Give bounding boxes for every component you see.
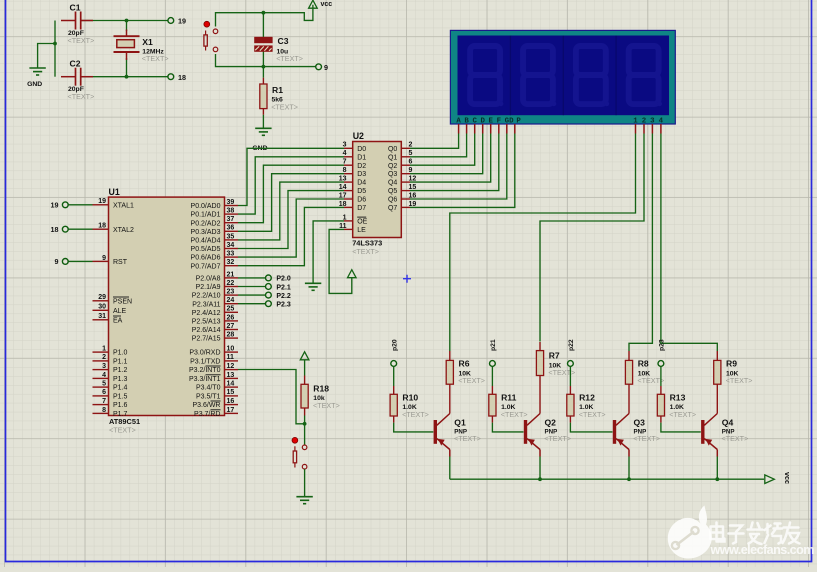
svg-text:P2.2: P2.2 [276, 293, 291, 300]
svg-text:Q2: Q2 [545, 418, 557, 428]
svg-text:<TEXT>: <TEXT> [313, 401, 340, 410]
wire P2.0 to terminal [238, 277, 266, 279]
power VCC for LE [348, 270, 357, 278]
svg-text:28: 28 [227, 332, 235, 339]
svg-text:36: 36 [227, 225, 235, 232]
power VCC right arrow [765, 472, 792, 484]
svg-text:4: 4 [102, 372, 106, 379]
latch U2 74LS373 [352, 131, 401, 256]
wire Q2 to segment C [410, 134, 475, 166]
svg-text:24: 24 [227, 297, 235, 304]
svg-text:21: 21 [227, 271, 235, 278]
svg-text:<TEXT>: <TEXT> [109, 426, 136, 435]
svg-text:D4: D4 [357, 180, 366, 187]
svg-text:<TEXT>: <TEXT> [637, 376, 664, 385]
svg-text:<TEXT>: <TEXT> [402, 410, 429, 419]
svg-text:<TEXT>: <TEXT> [722, 434, 749, 443]
wire R1 to ground [262, 115, 264, 129]
wire p21 to R11 [491, 366, 493, 386]
svg-text:P1.5: P1.5 [113, 394, 128, 401]
svg-text:<TEXT>: <TEXT> [142, 54, 169, 63]
svg-text:13: 13 [227, 372, 235, 379]
wire P2.3 to terminal [238, 303, 266, 305]
R8 body [625, 360, 632, 384]
wire Q3 to segment D [410, 134, 483, 174]
wire R11 to Q2 base [492, 423, 523, 432]
terminal p21 [490, 339, 498, 366]
svg-text:OE: OE [357, 219, 367, 226]
svg-text:p21: p21 [490, 339, 497, 351]
R10 body [390, 394, 397, 416]
svg-text:Q6: Q6 [388, 197, 397, 204]
mcu U1 AT89C51 [109, 187, 225, 435]
wire digit2 to R7 [540, 134, 644, 342]
svg-text:39: 39 [227, 199, 235, 206]
resistor R13 1.0K [657, 386, 696, 423]
R6 body [446, 360, 453, 384]
svg-text:R7: R7 [549, 351, 560, 361]
svg-text:14: 14 [227, 381, 235, 388]
wire digit1 to R6 [450, 134, 636, 352]
svg-text:15: 15 [227, 389, 235, 396]
svg-text:R1: R1 [272, 85, 283, 95]
svg-text:Q2: Q2 [388, 163, 397, 170]
svg-text:U2: U2 [353, 131, 364, 141]
svg-text:<TEXT>: <TEXT> [352, 247, 379, 256]
svg-text:p23: p23 [659, 339, 666, 351]
wire P0.1 to D1 [238, 157, 344, 214]
wire Q1 to segment B [410, 134, 467, 157]
wire Q4 emitter to rail [716, 457, 718, 480]
svg-text:<TEXT>: <TEXT> [271, 103, 298, 112]
terminal 19 (XTAL1) [168, 17, 186, 26]
ground under R1 [255, 127, 271, 129]
svg-text:33: 33 [227, 251, 235, 258]
svg-text:R18: R18 [313, 384, 329, 394]
capacitor C2 [61, 59, 94, 102]
wire p22 to R12 [569, 366, 571, 386]
U2 left pins D0-D7 OE LE [339, 142, 368, 234]
svg-text:P2.1/A9: P2.1/A9 [196, 284, 221, 291]
svg-text:C2: C2 [70, 59, 81, 69]
svg-text:6: 6 [102, 389, 106, 396]
svg-text:P3.7/RD: P3.7/RD [194, 411, 220, 418]
wire C3 top [262, 13, 264, 37]
svg-text:P3.5/T1: P3.5/T1 [196, 394, 221, 401]
wire digit4 to R9 [661, 134, 717, 352]
resistor R18 body [301, 384, 308, 408]
svg-text:Q5: Q5 [388, 188, 397, 195]
terminal P2.0 [266, 275, 291, 283]
svg-text:19: 19 [51, 200, 59, 209]
svg-text:Q1: Q1 [454, 418, 466, 428]
svg-text:P2.3: P2.3 [276, 302, 291, 309]
wire R18 bottom [304, 416, 306, 424]
resistor R10 1.0K [390, 386, 429, 423]
wire P0.6 to D6 [238, 199, 344, 257]
svg-text:P0.7/AD7: P0.7/AD7 [191, 263, 221, 270]
wire C3 bottom to R1 [262, 52, 264, 78]
terminal p20 [391, 339, 398, 366]
push button reset [204, 21, 218, 51]
svg-text:LE: LE [357, 227, 366, 234]
svg-text:P1.3: P1.3 [113, 376, 128, 383]
svg-text:R13: R13 [670, 392, 686, 402]
wire R13 to Q4 base [661, 423, 701, 432]
transistor Q1 PNP [434, 414, 481, 457]
push button INT0 [292, 437, 307, 469]
terminal 9 (reset) [316, 63, 328, 72]
R11 body [489, 394, 496, 416]
svg-text:P2.6/A14: P2.6/A14 [192, 327, 221, 334]
svg-text:Q4: Q4 [388, 180, 397, 187]
4-digit 7-segment display [450, 30, 675, 133]
svg-text:1: 1 [102, 346, 106, 353]
svg-text:R12: R12 [579, 392, 595, 402]
svg-text:P2.1: P2.1 [276, 284, 291, 291]
svg-text:27: 27 [227, 323, 235, 330]
svg-text:22: 22 [227, 280, 235, 287]
wire X1 top [126, 21, 128, 32]
svg-text:P2.7/A15: P2.7/A15 [192, 336, 221, 343]
svg-text:XTAL1: XTAL1 [113, 202, 134, 209]
watermark logo elecfans [668, 506, 712, 559]
svg-text:P2.0: P2.0 [276, 276, 291, 283]
svg-text:Q1: Q1 [388, 154, 397, 161]
wire Q1 emitter to rail [449, 457, 451, 480]
svg-text:P0.6/AD6: P0.6/AD6 [191, 255, 221, 262]
ground under button [296, 496, 312, 498]
svg-text:p20: p20 [391, 339, 398, 351]
watermark text www.elecfans.com [710, 543, 815, 557]
svg-text:R10: R10 [402, 392, 418, 402]
wire emitter rail [450, 478, 764, 480]
svg-text:17: 17 [227, 407, 235, 414]
svg-text:D1: D1 [357, 154, 366, 161]
svg-text:3: 3 [102, 363, 106, 370]
wire P0.0 to D0 [238, 148, 344, 205]
wire P0.7 to D7 [238, 207, 344, 265]
svg-text:Q7: Q7 [388, 205, 397, 212]
wire VCC to R18 [304, 360, 306, 375]
wire R12 to Q3 base [570, 423, 612, 432]
terminal 9 left [55, 257, 69, 266]
terminal 18 (XTAL2) [168, 73, 186, 82]
svg-text:ALE: ALE [113, 308, 127, 315]
wire Q5 to segment F [410, 134, 499, 191]
svg-text:32: 32 [227, 259, 235, 266]
svg-text:P3.0/RXD: P3.0/RXD [189, 350, 220, 357]
resistor R1 body [260, 84, 267, 109]
svg-text:P1.2: P1.2 [113, 367, 128, 374]
svg-text:P1.1: P1.1 [113, 359, 128, 366]
U2 right pins Q0-Q7 [388, 142, 416, 212]
svg-text:Q3: Q3 [634, 418, 646, 428]
terminal P2.1 [266, 284, 291, 292]
wire p20 to R10 [393, 366, 395, 386]
resistor R12 1.0K [567, 386, 606, 423]
svg-text:P1.4: P1.4 [113, 385, 128, 392]
svg-text:26: 26 [227, 314, 235, 321]
wire Q3 emitter to rail [628, 457, 630, 480]
wire P0.5 to D5 [238, 191, 344, 249]
svg-text:vcc: vcc [783, 472, 792, 484]
U1 right pins [189, 199, 238, 418]
svg-text:25: 25 [227, 306, 235, 313]
svg-text:U1: U1 [109, 187, 120, 197]
svg-text:EA: EA [113, 317, 123, 324]
svg-text:P1.7: P1.7 [113, 411, 128, 418]
wire terminal 9 to U1 [68, 260, 92, 262]
ground [29, 67, 45, 69]
svg-text:P0.3/AD3: P0.3/AD3 [191, 229, 221, 236]
terminal p23 [658, 339, 666, 366]
terminal p22 [568, 339, 576, 366]
svg-text:P2.3/A11: P2.3/A11 [192, 301, 220, 308]
svg-text:38: 38 [227, 208, 235, 215]
capacitor C1 [61, 3, 94, 46]
svg-text:29: 29 [98, 294, 106, 301]
svg-text:5: 5 [102, 381, 106, 388]
svg-text:<TEXT>: <TEXT> [548, 368, 575, 377]
svg-text:<TEXT>: <TEXT> [458, 376, 485, 385]
svg-text:18: 18 [51, 225, 59, 234]
svg-text:Q0: Q0 [388, 146, 397, 153]
R7 body [536, 351, 543, 376]
resistor R18 [301, 376, 340, 416]
wire junction to button [304, 424, 306, 445]
wire XTAL1 net [81, 20, 168, 22]
svg-text:D6: D6 [357, 197, 366, 204]
wire Q2 emitter to rail [539, 457, 541, 480]
svg-text:vcc: vcc [321, 1, 333, 8]
svg-text:D7: D7 [357, 205, 366, 212]
wire VCC to button and C3 [216, 5, 313, 27]
svg-text:D2: D2 [357, 163, 366, 170]
svg-text:P3.4/T0: P3.4/T0 [196, 385, 221, 392]
terminal P2.3 [266, 301, 291, 309]
svg-text:X1: X1 [142, 37, 153, 47]
svg-text:10: 10 [227, 346, 235, 353]
display segment pins [459, 124, 661, 134]
wire P0.3 to D3 [238, 174, 344, 232]
terminal 18 left [51, 225, 69, 234]
wire reset net to terminal 9 [216, 54, 316, 67]
ground under OE [305, 282, 321, 284]
wire P2.2 to terminal [238, 294, 266, 296]
terminal P2.2 [266, 292, 291, 300]
resistor R1 [260, 78, 298, 115]
svg-text:P0.1/AD1: P0.1/AD1 [191, 212, 221, 219]
wire Q7 to segment DP [410, 134, 515, 208]
svg-text:7: 7 [102, 398, 106, 405]
wire R10 to Q1 base [394, 423, 434, 432]
resistor R7 10K [536, 342, 575, 414]
wire terminal 19 to U1 [68, 204, 92, 206]
svg-text:30: 30 [98, 304, 106, 311]
wire P3.2 to button junction [238, 370, 305, 424]
svg-text:R8: R8 [638, 359, 649, 369]
svg-text:P2.0/A8: P2.0/A8 [196, 276, 221, 283]
crystal X1 [114, 30, 169, 63]
svg-text:18: 18 [178, 73, 186, 82]
wire LE to VCC [329, 229, 352, 293]
wire OE to ground [313, 221, 344, 283]
resistor R6 10K [446, 351, 485, 414]
R13 body [657, 394, 664, 416]
svg-text:P0.2/AD2: P0.2/AD2 [191, 220, 221, 227]
svg-text:Q3: Q3 [388, 171, 397, 178]
svg-text:<TEXT>: <TEXT> [633, 434, 660, 443]
svg-text:R6: R6 [459, 359, 470, 369]
wire P0.2 to D2 [238, 165, 344, 223]
wire button to ground [304, 469, 306, 497]
svg-text:P0.0/AD0: P0.0/AD0 [191, 203, 221, 210]
wire p23 to R13 [660, 366, 662, 386]
svg-text:PSEN: PSEN [113, 298, 132, 305]
svg-text:R9: R9 [726, 359, 737, 369]
R9 body [714, 360, 721, 384]
svg-text:D: D [509, 117, 514, 125]
svg-text:C3: C3 [278, 36, 289, 46]
svg-text:<TEXT>: <TEXT> [669, 410, 696, 419]
wire X1 bottom [126, 58, 128, 77]
svg-text:P1.0: P1.0 [113, 350, 128, 357]
svg-text:19: 19 [98, 198, 106, 205]
svg-text:34: 34 [227, 242, 235, 249]
svg-text:<TEXT>: <TEXT> [544, 434, 571, 443]
svg-text:P3.1/TXD: P3.1/TXD [190, 359, 220, 366]
R12 body [567, 394, 574, 416]
resistor R9 10K [714, 351, 753, 414]
svg-text:23: 23 [227, 289, 235, 296]
svg-text:11: 11 [227, 354, 235, 361]
svg-text:<TEXT>: <TEXT> [276, 54, 303, 63]
svg-text:18: 18 [98, 223, 106, 230]
wire ground side of C1/C2 [54, 21, 56, 77]
wire XTAL2 net [81, 76, 168, 78]
svg-text:D5: D5 [357, 188, 366, 195]
svg-text:16: 16 [227, 398, 235, 405]
svg-text:<TEXT>: <TEXT> [454, 434, 481, 443]
transistor Q4 PNP [701, 414, 748, 457]
U1 left pins [93, 198, 134, 418]
wire Q6 to segment G [410, 134, 507, 200]
svg-text:RST: RST [113, 259, 128, 266]
svg-text:<TEXT>: <TEXT> [68, 92, 95, 101]
svg-text:9: 9 [102, 255, 106, 262]
svg-text:19: 19 [178, 17, 186, 26]
transistor Q2 PNP [524, 414, 571, 457]
svg-text:P0.5/AD5: P0.5/AD5 [191, 246, 221, 253]
svg-text:P3.2/INT0: P3.2/INT0 [189, 367, 221, 374]
wire Q0 to segment A [410, 134, 459, 149]
svg-text:9: 9 [55, 257, 59, 266]
svg-text:<TEXT>: <TEXT> [68, 36, 95, 45]
svg-text:<TEXT>: <TEXT> [726, 376, 753, 385]
svg-text:12: 12 [227, 363, 235, 370]
wire to ground [38, 44, 55, 69]
svg-text:XTAL2: XTAL2 [113, 227, 134, 234]
svg-text:P: P [516, 117, 521, 125]
svg-text:9: 9 [324, 63, 328, 72]
svg-text:37: 37 [227, 216, 235, 223]
transistor Q3 PNP [613, 414, 660, 457]
svg-text:C1: C1 [70, 3, 81, 13]
svg-text:R11: R11 [501, 392, 517, 402]
svg-text:2: 2 [102, 354, 106, 361]
wire Q4 to segment E [410, 134, 491, 183]
capacitor C3 [255, 36, 303, 63]
svg-text:P2.4/A12: P2.4/A12 [192, 310, 221, 317]
svg-text:P2.2/A10: P2.2/A10 [192, 293, 221, 300]
power VCC above R18 [300, 352, 309, 360]
svg-text:31: 31 [98, 313, 106, 320]
wire P0.4 to D4 [238, 182, 344, 240]
svg-text:<TEXT>: <TEXT> [579, 410, 606, 419]
origin marker [403, 275, 411, 283]
svg-text:p22: p22 [568, 339, 575, 351]
svg-text:D0: D0 [357, 146, 366, 153]
svg-text:8: 8 [102, 407, 106, 414]
svg-text:P1.6: P1.6 [113, 402, 128, 409]
svg-text:P3.6/WR: P3.6/WR [192, 402, 220, 409]
svg-text:<TEXT>: <TEXT> [501, 410, 528, 419]
wire terminal 18 to U1 [68, 228, 92, 230]
power VCC top [309, 0, 318, 8]
wire P2.1 to terminal [238, 286, 266, 288]
resistor R8 10K [625, 351, 664, 414]
svg-text:P0.4/AD4: P0.4/AD4 [191, 238, 221, 245]
svg-text:P3.3/INT1: P3.3/INT1 [189, 376, 221, 383]
svg-text:P2.5/A13: P2.5/A13 [192, 319, 221, 326]
watermark text chinese [711, 523, 800, 545]
svg-text:Q4: Q4 [722, 418, 734, 428]
svg-text:35: 35 [227, 233, 235, 240]
wire digit3 to R8 [629, 134, 652, 352]
svg-text:GND: GND [27, 81, 42, 88]
resistor R11 1.0K [489, 386, 528, 423]
svg-text:D3: D3 [357, 171, 366, 178]
terminal 19 left [51, 200, 69, 209]
